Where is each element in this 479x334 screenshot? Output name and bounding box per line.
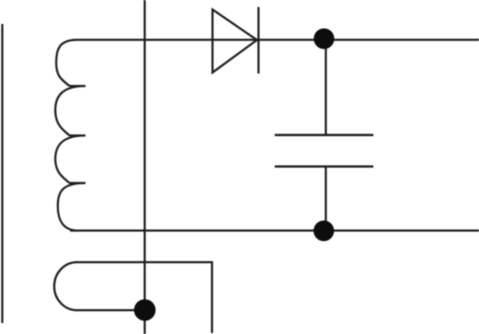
inductor cusp tick 3 — [70, 182, 86, 184]
wire bottom — [70, 230, 479, 232]
diode D1 triangle — [213, 10, 258, 73]
wire capacitor bottom lead — [325, 167, 327, 231]
transformer core line — [1, 24, 3, 323]
wire capacitor top lead — [325, 40, 327, 135]
inductor cusp tick 2 — [70, 134, 86, 136]
wire vertical bus — [144, 0, 146, 334]
diode D1 cathode bar — [257, 7, 259, 74]
node dot top — [314, 28, 335, 49]
capacitor C1 bottom plate — [275, 165, 374, 167]
wire top — [77, 39, 479, 41]
winding 2 bottom — [54, 262, 212, 333]
node dot lower left — [134, 299, 156, 321]
inductor cusp tick 1 — [70, 85, 86, 87]
capacitor C1 top plate — [275, 134, 374, 136]
inductor L1 secondary winding — [55, 40, 85, 231]
node dot bottom — [314, 221, 335, 242]
